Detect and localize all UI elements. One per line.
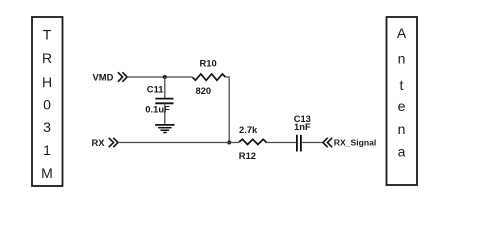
resistor R10 (820) <box>193 57 226 96</box>
svg-text:1: 1 <box>43 142 51 158</box>
wire C13 to RX_Signal port <box>301 142 323 144</box>
svg-text:t: t <box>400 77 404 93</box>
svg-text:R10: R10 <box>200 57 217 68</box>
svg-text:n: n <box>398 121 406 137</box>
wire C11 to ground <box>164 103 166 125</box>
port RX <box>92 137 119 148</box>
ground <box>155 125 174 133</box>
junction node VMD/C11 <box>163 75 167 79</box>
svg-text:RX: RX <box>92 137 106 148</box>
svg-text:R12: R12 <box>239 150 256 161</box>
svg-text:0.1uF: 0.1uF <box>145 104 170 115</box>
svg-text:e: e <box>398 98 406 114</box>
svg-text:C11: C11 <box>147 84 164 95</box>
svg-text:n: n <box>398 51 406 67</box>
svg-text:820: 820 <box>196 85 212 96</box>
svg-text:2.7k: 2.7k <box>239 124 258 135</box>
port RX_Signal <box>323 137 376 147</box>
svg-text:3: 3 <box>43 119 51 135</box>
wire junction to C11 <box>164 77 166 99</box>
wire R12 to C13 <box>267 142 297 144</box>
port VMD <box>93 72 128 83</box>
capacitor C11 (0.1uF) <box>145 84 173 115</box>
svg-text:H: H <box>42 74 52 90</box>
svg-text:a: a <box>398 143 406 159</box>
wire R10 to RX line (corner) <box>225 77 229 143</box>
module Antena <box>387 17 418 185</box>
wire VMD to R10 <box>127 76 192 78</box>
module TRH031M <box>32 17 63 186</box>
svg-text:R: R <box>42 50 52 66</box>
capacitor C13 (1nF) <box>294 113 311 152</box>
junction node R10/RX <box>227 141 231 145</box>
svg-text:VMD: VMD <box>93 72 114 83</box>
svg-text:M: M <box>41 165 53 181</box>
svg-text:0: 0 <box>43 97 51 113</box>
svg-text:T: T <box>43 27 52 43</box>
svg-text:RX_Signal: RX_Signal <box>334 137 377 147</box>
wire RX to R12 <box>118 142 239 144</box>
svg-text:1nF: 1nF <box>294 121 311 132</box>
resistor R12 (2.7k) <box>239 124 267 161</box>
svg-text:A: A <box>397 25 407 41</box>
